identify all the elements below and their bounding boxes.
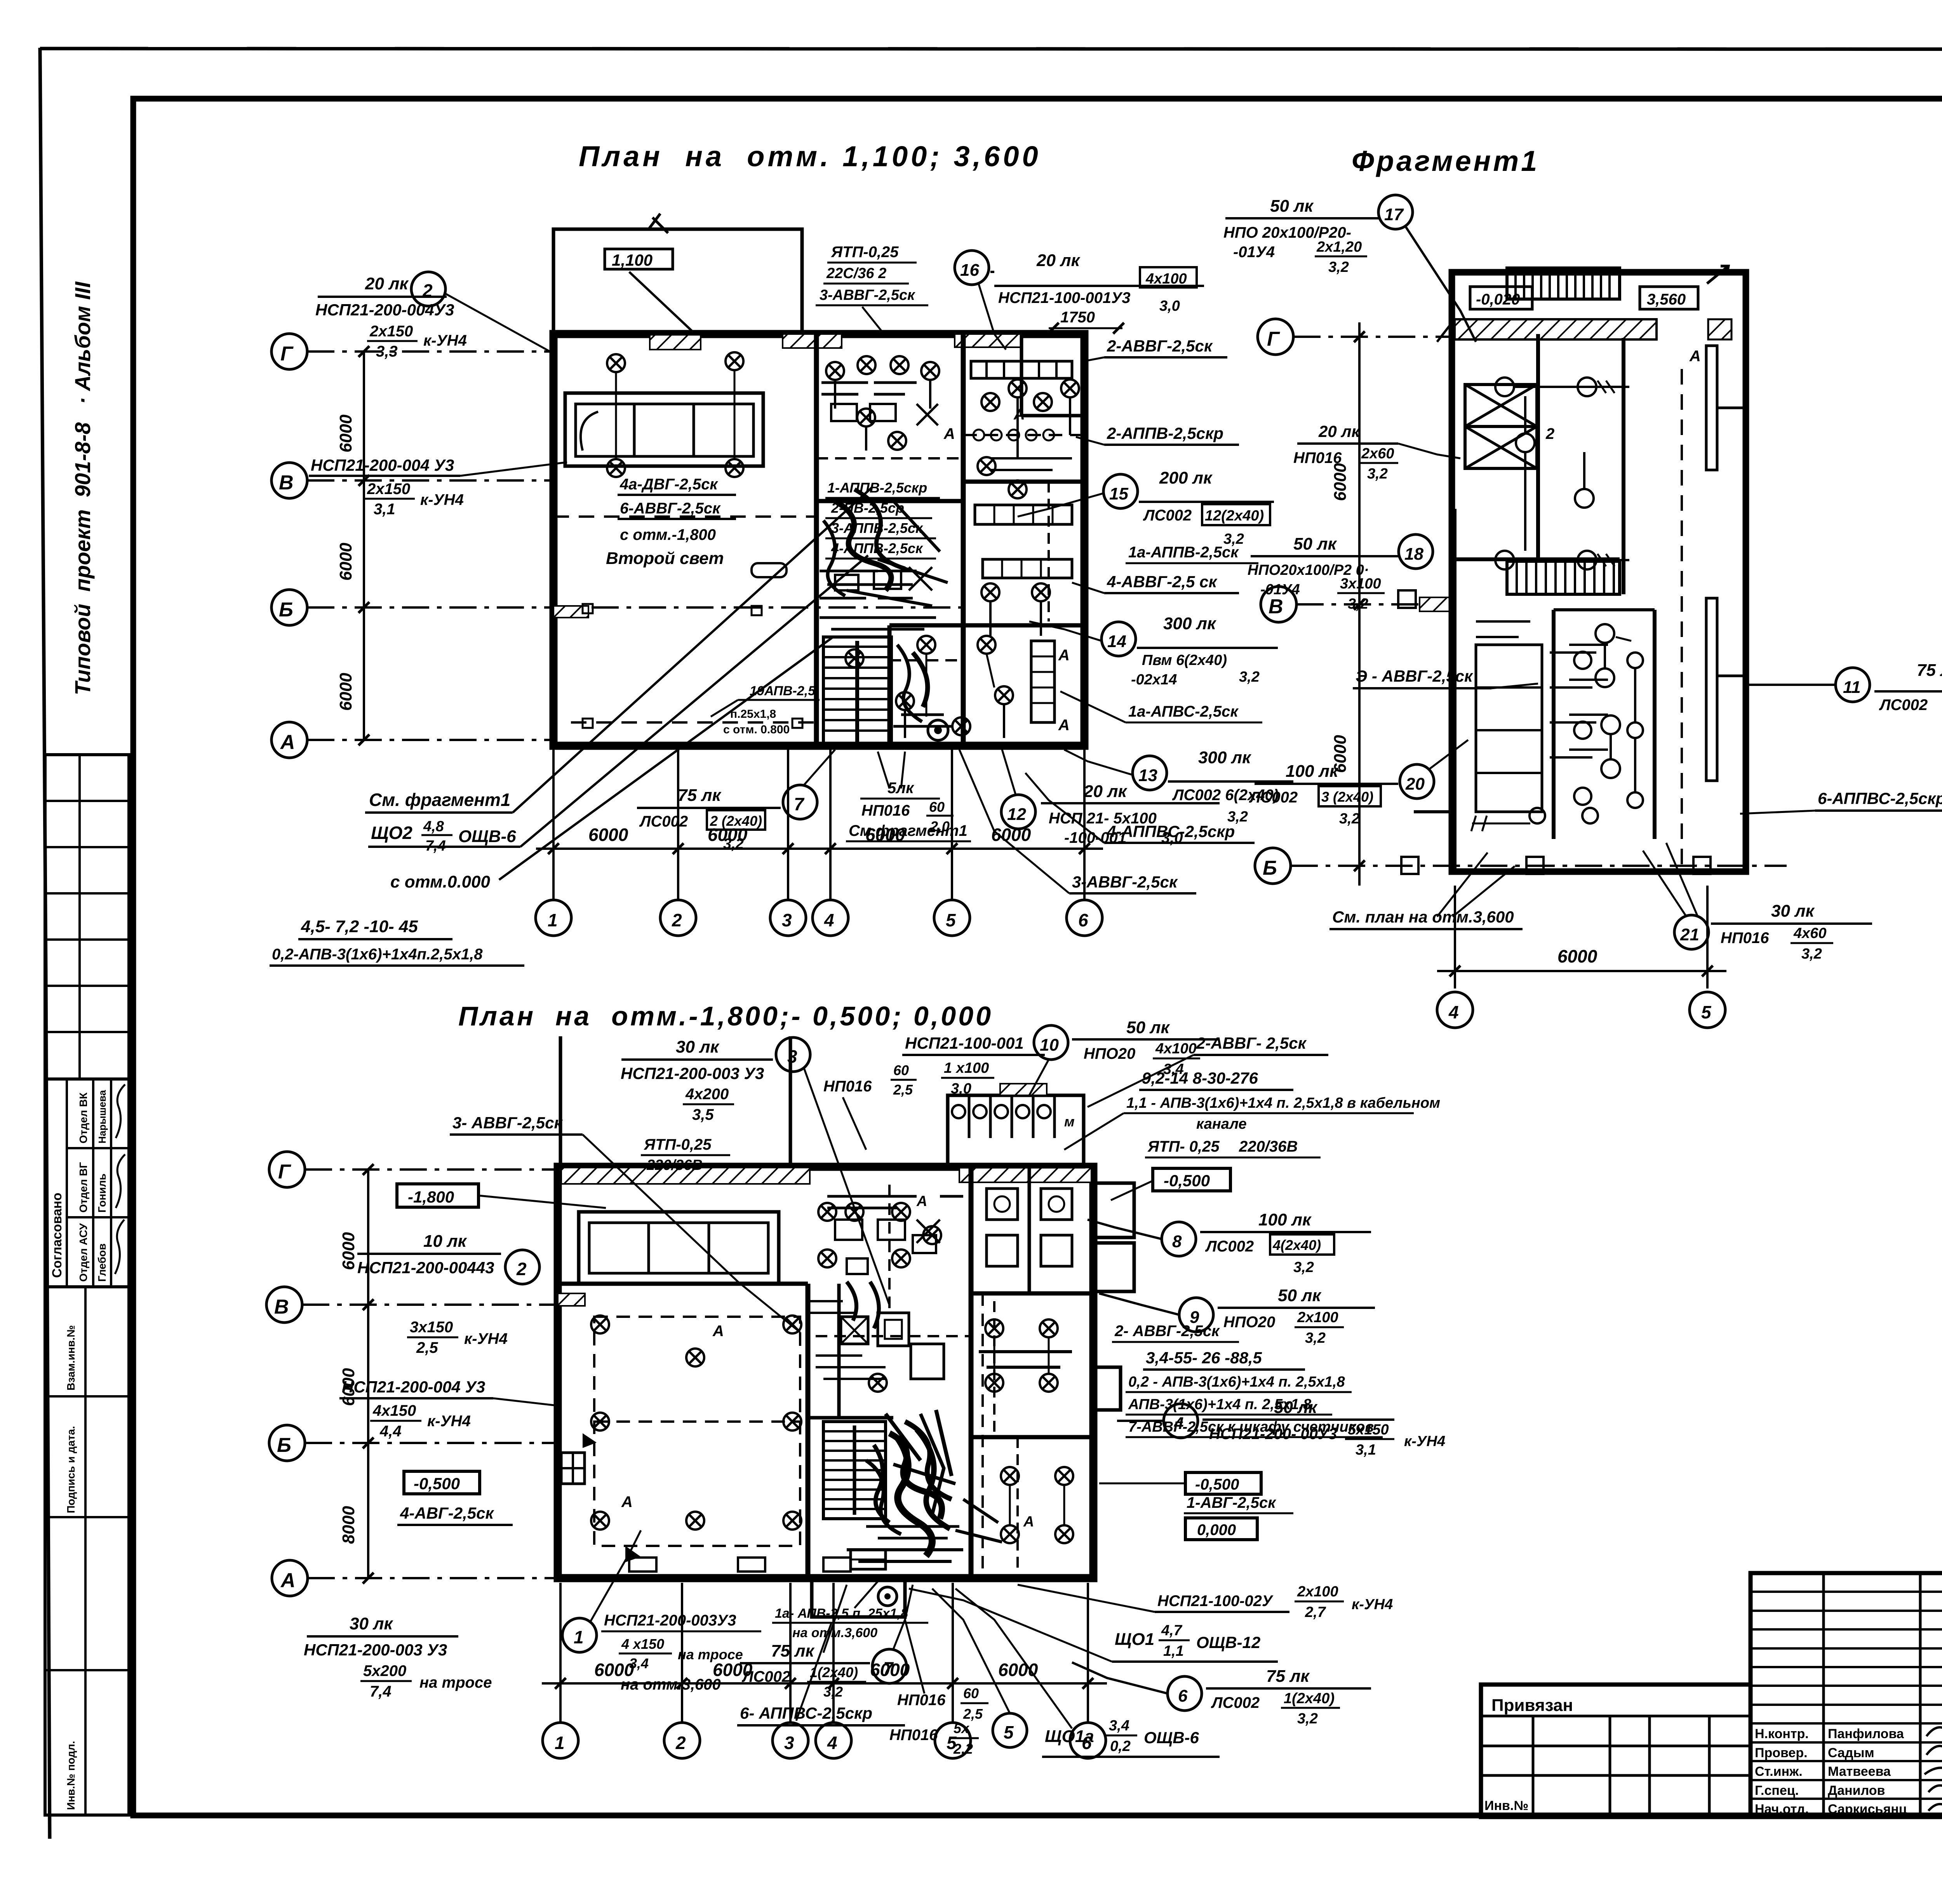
svg-text:-100-001: -100-001 <box>1064 829 1126 846</box>
svg-text:-0,020: -0,020 <box>1476 291 1520 308</box>
svg-text:1(2х40): 1(2х40) <box>1284 1690 1335 1707</box>
annotation 2-АВВГ-2,5ск right <box>1084 337 1227 361</box>
fragment annotation См. план на отм.3,600 <box>1329 853 1523 929</box>
svg-text:3,0: 3,0 <box>1161 829 1183 846</box>
svg-text:220/36В: 220/36В <box>646 1157 703 1173</box>
svg-text:НСП21-100-001У3: НСП21-100-001У3 <box>998 289 1131 306</box>
svg-text:НСП21-200-003 У3: НСП21-200-003 У3 <box>304 1641 447 1659</box>
svg-text:3,2: 3,2 <box>1348 596 1368 612</box>
svg-text:ЩО2: ЩО2 <box>371 823 412 843</box>
plan3 right jutting rooms <box>1093 1183 1134 1410</box>
plan3 circle 1 leader <box>562 1530 641 1652</box>
svg-text:4,4: 4,4 <box>379 1423 402 1440</box>
plan3 annotation 4-АВГ-2,5ск <box>397 1504 513 1525</box>
svg-text:0,2: 0,2 <box>1110 1738 1131 1754</box>
svg-text:4: 4 <box>1448 1002 1459 1022</box>
svg-text:6000: 6000 <box>865 825 905 845</box>
svg-text:2,2: 2,2 <box>953 1741 973 1757</box>
fragment annotation group 17 <box>1223 195 1476 342</box>
svg-text:9,2-14 8-30-276: 9,2-14 8-30-276 <box>1142 1069 1258 1087</box>
fragment grid axis Г <box>1258 319 1453 355</box>
fragment annotation group 20 <box>1249 740 1468 827</box>
svg-text:3,2: 3,2 <box>823 1684 843 1700</box>
svg-text:к-УН4: к-УН4 <box>464 1330 508 1347</box>
svg-text:2-АППВ-2,5скр: 2-АППВ-2,5скр <box>1107 424 1223 442</box>
svg-text:См. план на отм.3,600: См. план на отм.3,600 <box>1332 908 1514 926</box>
annotation group 2 (НСП21-200-004УЗ top left) <box>315 272 553 360</box>
fragment level box -0,020 <box>1470 287 1532 309</box>
svg-text:4х60: 4х60 <box>1793 925 1827 942</box>
svg-text:Отдел ВГ: Отдел ВГ <box>77 1162 89 1213</box>
svg-text:17: 17 <box>1384 205 1404 224</box>
svg-text:1-АППВ-2,5скр: 1-АППВ-2,5скр <box>827 480 927 496</box>
svg-text:3,2: 3,2 <box>1801 946 1822 962</box>
long leader wires to fragment area <box>499 487 872 880</box>
svg-text:21: 21 <box>1680 925 1699 944</box>
svg-text:6000: 6000 <box>336 543 355 581</box>
plan1 lab benches (room 13/14) <box>943 406 1072 734</box>
plan3 rooftop wc block <box>948 1084 1084 1167</box>
svg-text:4: 4 <box>827 1733 837 1753</box>
svg-text:Б: Б <box>277 1434 291 1457</box>
plan1 extra lamps top band <box>826 362 1079 601</box>
svg-text:4 х150: 4 х150 <box>621 1636 664 1652</box>
svg-text:Типовой проект 901-8-8 · А: Типовой проект 901-8-8 · Альбом III <box>70 281 95 695</box>
svg-text:на отм.3,600: на отм.3,600 <box>621 1676 721 1693</box>
fragment annotation 20 лк НП016 <box>1293 422 1460 482</box>
svg-text:А: А <box>943 425 955 442</box>
svg-text:к-УН4: к-УН4 <box>423 332 467 349</box>
svg-text:А: А <box>280 1569 296 1592</box>
annotation 4-АППВС-2,5скр <box>1025 773 1255 843</box>
plan title: План на отм. 1,100; 3,600 <box>579 140 1041 172</box>
svg-text:А: А <box>712 1323 724 1340</box>
plan1 lamps right rooms <box>846 356 1052 740</box>
fragment extra clutter <box>1476 621 1643 812</box>
svg-text:1а- АПВ-2,5 п. 25х1,8: 1а- АПВ-2,5 п. 25х1,8 <box>775 1606 908 1621</box>
svg-text:6: 6 <box>1078 910 1088 930</box>
svg-text:5х150: 5х150 <box>1348 1422 1389 1438</box>
annotation group 7 (75 лк) <box>637 750 835 852</box>
left stamp: revision table <box>45 755 129 1079</box>
plan3 window band top-left room <box>579 1212 779 1284</box>
plan1 column bubbles 1-6 <box>536 849 1102 936</box>
svg-text:12(2х40): 12(2х40) <box>1205 508 1264 524</box>
svg-text:Г: Г <box>280 343 294 365</box>
svg-text:3х100: 3х100 <box>1340 576 1381 592</box>
svg-text:3: 3 <box>784 1733 794 1753</box>
svg-text:2: 2 <box>422 280 433 301</box>
svg-text:-0,500: -0,500 <box>1164 1171 1210 1190</box>
svg-text:2-АВВГ-2,5ск: 2-АВВГ-2,5ск <box>1107 337 1213 355</box>
svg-text:Гониль: Гониль <box>96 1173 108 1213</box>
svg-text:4,7: 4,7 <box>1161 1622 1183 1639</box>
svg-text:Второй свет: Второй свет <box>606 549 724 568</box>
svg-text:100 лк: 100 лк <box>1258 1210 1312 1229</box>
svg-text:НСП21-200-004 У3: НСП21-200-004 У3 <box>342 1378 485 1396</box>
plan1 clerestory outline <box>553 214 802 334</box>
svg-text:6000: 6000 <box>339 1232 358 1270</box>
plan3 level box -1,800 <box>397 1184 606 1208</box>
fragment grid axis В <box>1261 587 1453 622</box>
vertical dimension chain plan 1 <box>336 346 369 745</box>
plan1 lamps left room <box>607 352 743 477</box>
svg-text:НП016: НП016 <box>823 1078 872 1095</box>
svg-text:Согласовано: Согласовано <box>50 1193 64 1278</box>
left stamp: approval table <box>45 1079 129 1287</box>
plan3 extra fixtures mid <box>808 1203 941 1392</box>
svg-text:14: 14 <box>1107 632 1126 651</box>
fragment top stair comb <box>1507 268 1620 299</box>
svg-text:НП016: НП016 <box>1721 929 1769 947</box>
fragment annotation 3-АВВГ-2,5ск <box>1353 667 1538 688</box>
svg-text:20 лк: 20 лк <box>365 274 409 293</box>
annotation group 12 (20 лк) <box>1001 750 1220 846</box>
fragment title <box>1352 145 1539 177</box>
plan3 mid dense machinery cluster <box>816 1185 971 1379</box>
svg-text:А: А <box>1013 406 1025 423</box>
svg-text:6000: 6000 <box>1557 946 1597 966</box>
svg-text:60: 60 <box>963 1685 979 1701</box>
svg-text:НП016: НП016 <box>861 802 910 819</box>
signature names <box>1755 1726 1907 1817</box>
plan3 level box -0,500 top right <box>1111 1168 1230 1200</box>
vertical album title <box>70 281 95 695</box>
svg-text:п.25х1,8: п.25х1,8 <box>730 708 776 721</box>
svg-text:3,2: 3,2 <box>1328 259 1349 275</box>
dimension 1750 <box>1048 309 1124 334</box>
svg-text:0,2-АПВ-3(1х6)+1х4п.2,5х1,8: 0,2-АПВ-3(1х6)+1х4п.2,5х1,8 <box>272 946 483 963</box>
plan3 annotation group 6 <box>1072 1662 1371 1727</box>
plan3 left room corner fixtures <box>561 1433 851 1572</box>
svg-text:Данилов: Данилов <box>1828 1783 1885 1798</box>
fragment column bubbles 4,5 <box>1437 992 1725 1028</box>
plan3 annotation feeder 3,4-55-26-88,5 <box>1126 1349 1383 1437</box>
annotation 2-АППВ-2,5скр right <box>1076 424 1239 445</box>
svg-text:75 лк: 75 лк <box>1266 1667 1310 1686</box>
title block: привязан box <box>1481 1685 1751 1817</box>
title block: signature grid <box>1751 1573 1942 1817</box>
plan3 top wall hatch bands <box>558 1168 1091 1306</box>
svg-text:с отм.-1,800: с отм.-1,800 <box>620 526 716 543</box>
svg-text:1750: 1750 <box>1060 309 1095 326</box>
svg-text:Г: Г <box>278 1161 291 1183</box>
svg-text:НСП21-200-003У3: НСП21-200-003У3 <box>604 1612 736 1629</box>
plan3 title <box>458 1001 993 1031</box>
svg-text:А: А <box>280 731 295 754</box>
grid axis Г (plan 1) <box>271 334 553 369</box>
svg-text:75 лк: 75 лк <box>1917 661 1942 680</box>
svg-text:на тросе: на тросе <box>419 1674 492 1691</box>
svg-text:3,4: 3,4 <box>1109 1718 1129 1734</box>
svg-text:В: В <box>274 1296 289 1318</box>
svg-text:1,1 - АПВ-3(1х6)+1х4 п. 2,5х1,: 1,1 - АПВ-3(1х6)+1х4 п. 2,5х1,8 в кабель… <box>1126 1095 1440 1111</box>
svg-text:20 лк: 20 лк <box>1318 422 1361 440</box>
plan1 building outer walls <box>553 334 1084 746</box>
svg-text:0,000: 0,000 <box>1197 1521 1236 1539</box>
plan3 lamps left room <box>591 1316 801 1530</box>
plan3 annotation 3х150 к-УН4 <box>407 1319 508 1356</box>
annotation 1а-АППВ-2,5ск <box>1126 544 1258 563</box>
svg-text:3,4-55- 26 -88,5: 3,4-55- 26 -88,5 <box>1146 1349 1262 1367</box>
svg-text:60: 60 <box>929 799 945 815</box>
svg-text:Г: Г <box>1267 328 1280 350</box>
annotation group 15 <box>1018 468 1274 547</box>
svg-text:НПО20: НПО20 <box>1223 1314 1275 1331</box>
plan3 annotation 3-АВВГ-2,5ск top <box>450 1114 800 1332</box>
svg-text:3,1: 3,1 <box>374 501 395 518</box>
plan3 annotation НСП21-200-003УЗ bottom <box>601 1612 761 1693</box>
svg-text:7: 7 <box>883 1658 894 1678</box>
plan3 grid axis А <box>272 1560 558 1596</box>
svg-text:2- АВВГ-2,5ск: 2- АВВГ-2,5ск <box>1114 1323 1220 1340</box>
annotation НСП21-200-004 УЗ (axis В) <box>309 456 567 518</box>
svg-text:План на отм. 1,100; 3,600: План на отм. 1,100; 3,600 <box>579 140 1041 172</box>
svg-text:Нач.отд.: Нач.отд. <box>1755 1802 1809 1817</box>
svg-text:3-АВВГ-2,5ск: 3-АВВГ-2,5ск <box>820 287 915 303</box>
svg-text:НПО20: НПО20 <box>1084 1045 1135 1062</box>
svg-text:6-АППВС-2,5скр: 6-АППВС-2,5скр <box>1818 789 1942 808</box>
svg-text:20: 20 <box>1405 774 1425 794</box>
svg-text:ЛС002: ЛС002 <box>1879 696 1928 714</box>
plan1 hatched wall segments <box>553 334 1022 618</box>
svg-text:6000: 6000 <box>1331 463 1350 501</box>
svg-text:2: 2 <box>1545 425 1554 442</box>
svg-text:3,1: 3,1 <box>1356 1442 1376 1458</box>
svg-text:Инв.№ подл.: Инв.№ подл. <box>65 1741 77 1810</box>
fragment pendant lamp circuits top room <box>1495 378 1629 569</box>
svg-text:НСП21-200-004У3: НСП21-200-004У3 <box>315 301 454 319</box>
svg-text:2-АВВГ- 2,5ск: 2-АВВГ- 2,5ск <box>1196 1034 1307 1052</box>
fragment В-axis partial walls <box>1398 509 1455 870</box>
svg-text:2,7: 2,7 <box>1305 1604 1326 1620</box>
svg-text:на отм.3,600: на отм.3,600 <box>792 1626 877 1640</box>
fragment grid axis Б <box>1255 848 1787 884</box>
svg-text:НСП21-100-001: НСП21-100-001 <box>905 1034 1024 1052</box>
annotation НП016 5лк <box>846 752 971 841</box>
svg-text:30 лк: 30 лк <box>676 1037 720 1056</box>
svg-text:3,2: 3,2 <box>1297 1711 1318 1727</box>
svg-text:4х200: 4х200 <box>685 1086 729 1103</box>
plan1 heavy circuit scribble cluster <box>820 489 948 629</box>
svg-text:4: 4 <box>1174 1414 1183 1433</box>
plan3 annotation ЯТП-0,25 <box>641 1136 730 1173</box>
plan3 section cut lines <box>560 1036 790 1167</box>
plan3 annotation НП016 lower + circle 5 <box>889 1589 1027 1757</box>
svg-text:Провер.: Провер. <box>1755 1746 1808 1760</box>
svg-text:-0,500: -0,500 <box>1195 1476 1239 1493</box>
svg-text:4х150: 4х150 <box>372 1402 416 1419</box>
svg-text:НП016: НП016 <box>897 1692 946 1709</box>
svg-text:12: 12 <box>1007 805 1026 824</box>
svg-text:Инв.№: Инв.№ <box>1484 1798 1528 1813</box>
svg-text:3,0: 3,0 <box>1159 298 1180 314</box>
svg-text:5: 5 <box>946 910 956 930</box>
svg-text:-01У4: -01У4 <box>1260 581 1300 598</box>
svg-text:2х100: 2х100 <box>1297 1309 1338 1326</box>
plan3 annotation НП016 60/2,5 bottom <box>897 1620 988 1722</box>
svg-text:4(2х40): 4(2х40) <box>1272 1237 1321 1253</box>
plan3 annotation НСП21-100-02У bottom right <box>1018 1584 1393 1620</box>
svg-text:3,560: 3,560 <box>1647 291 1686 308</box>
svg-text:-01У4: -01У4 <box>1233 244 1275 261</box>
plan1 extra interior clutter <box>821 342 1072 726</box>
svg-text:НСП21-100-02У: НСП21-100-02У <box>1157 1592 1274 1610</box>
fragment annotation group 21 <box>1643 843 1872 962</box>
svg-text:ЛС002: ЛС002 <box>1205 1238 1254 1255</box>
svg-text:6000: 6000 <box>708 825 748 845</box>
svg-text:Фрагмент1: Фрагмент1 <box>1352 145 1539 177</box>
grid axis А (plan 1) <box>271 722 553 758</box>
svg-text:к-УН4: к-УН4 <box>420 491 464 508</box>
svg-text:2х100: 2х100 <box>1297 1584 1338 1600</box>
annotation 4-АВВГ-2,5 ск <box>1072 573 1239 593</box>
svg-text:4-АВВГ-2,5 ск: 4-АВВГ-2,5 ск <box>1107 573 1218 591</box>
svg-text:3,5: 3,5 <box>692 1106 714 1123</box>
svg-text:Отдел ВК: Отдел ВК <box>77 1092 89 1143</box>
plan3 annotation ЩО1а ОЩВ-6 <box>955 1589 1220 1757</box>
svg-text:1а-АППВ-2,5ск: 1а-АППВ-2,5ск <box>1128 544 1239 561</box>
svg-text:ЛС002: ЛС002 <box>1249 789 1298 806</box>
plan3 annotation НСП21-100-001 top <box>902 1034 1045 1097</box>
fragment annotation group 11 <box>1748 661 1942 734</box>
plan3 annotation 10 лк группа 2 <box>357 1232 539 1284</box>
svg-text:-1,800: -1,800 <box>408 1188 454 1206</box>
svg-text:План на отм.-1,800;- 0,500;: План на отм.-1,800;- 0,500; 0,000 <box>458 1001 993 1031</box>
annotation group 16 top right <box>955 251 1204 350</box>
svg-text:4а-ДВГ-2,5ск: 4а-ДВГ-2,5ск <box>619 476 718 493</box>
svg-text:200 лк: 200 лк <box>1159 468 1213 487</box>
plan3 annotation group 9 <box>1099 1286 1375 1346</box>
svg-text:50 лк: 50 лк <box>1126 1018 1171 1037</box>
svg-text:2: 2 <box>675 1733 686 1753</box>
svg-text:4х100: 4х100 <box>1145 271 1187 287</box>
svg-text:5: 5 <box>1004 1722 1014 1742</box>
svg-text:6000: 6000 <box>991 825 1031 845</box>
svg-text:НСП21-200- 00У3: НСП21-200- 00У3 <box>1209 1425 1337 1443</box>
svg-text:20 лк: 20 лк <box>1083 782 1128 801</box>
plan3 left vertical dimension chain <box>339 1164 374 1584</box>
plan3 annotation group 4 <box>1117 1398 1445 1458</box>
plan3 annotation 6-АППВС leader lines <box>796 1585 847 1721</box>
svg-text:НП016: НП016 <box>1293 449 1342 466</box>
svg-text:50 лк: 50 лк <box>1270 197 1314 216</box>
svg-text:1,1: 1,1 <box>1163 1643 1184 1659</box>
svg-text:6- АППВС-2,5скр: 6- АППВС-2,5скр <box>740 1704 872 1722</box>
annotation ЯТП-0,25 top <box>816 244 928 336</box>
svg-text:2,5: 2,5 <box>963 1706 983 1722</box>
svg-text:6-АВВГ-2,5ск: 6-АВВГ-2,5ск <box>620 500 721 517</box>
svg-text:3,2: 3,2 <box>1305 1330 1326 1346</box>
annotation 3-АВВГ-2,5ск bottom right <box>959 750 1196 893</box>
svg-text:3,2: 3,2 <box>1293 1259 1314 1276</box>
svg-text:8: 8 <box>1172 1232 1182 1251</box>
svg-text:4: 4 <box>824 910 834 930</box>
svg-text:1(2х40): 1(2х40) <box>810 1664 858 1680</box>
svg-text:2,5: 2,5 <box>416 1339 438 1356</box>
svg-text:Г.спец.: Г.спец. <box>1755 1783 1799 1798</box>
svg-text:с отм. 0.800: с отм. 0.800 <box>723 723 790 736</box>
plan3 stair <box>823 1422 886 1519</box>
plan3 level box -0,500 right <box>1099 1472 1261 1494</box>
svg-text:Саркисьянц: Саркисьянц <box>1828 1802 1907 1817</box>
svg-text:4,8: 4,8 <box>423 818 444 835</box>
svg-text:3,4: 3,4 <box>629 1655 649 1671</box>
svg-text:60: 60 <box>893 1062 909 1078</box>
plan3 annotation group 7 (75 лк) <box>740 1585 913 1700</box>
svg-text:ОЩВ-12: ОЩВ-12 <box>1196 1633 1260 1652</box>
svg-text:Панфилова: Панфилова <box>1828 1726 1904 1741</box>
svg-text:3х150: 3х150 <box>410 1319 453 1336</box>
plan3 annotation feeder 9,2-14 8-30-276 <box>1064 1069 1440 1150</box>
plan3 extra heavy smudge <box>847 1410 1002 1561</box>
svg-text:3,2: 3,2 <box>1339 811 1360 827</box>
plan1 interior wall (mid vertical) <box>816 334 1084 746</box>
annotation с отм.0.000 <box>390 872 491 891</box>
svg-text:Отдел АСУ: Отдел АСУ <box>77 1223 89 1282</box>
svg-text:ЛС002: ЛС002 <box>1143 507 1192 524</box>
svg-text:10 лк: 10 лк <box>423 1232 468 1251</box>
svg-text:2х60: 2х60 <box>1361 446 1394 462</box>
annotation feeder 4,5-7,2-10-45 <box>270 917 524 966</box>
fragment vertical dimension line <box>1331 322 1365 886</box>
annotation group 14 <box>1029 614 1278 688</box>
svg-text:2: 2 <box>516 1259 527 1279</box>
fragment interior walls <box>1455 334 1655 839</box>
svg-text:11: 11 <box>1843 678 1861 697</box>
plan1 dashed circuit run left room <box>553 517 816 728</box>
svg-text:-0,500: -0,500 <box>414 1474 460 1493</box>
svg-text:1 х100: 1 х100 <box>944 1060 989 1076</box>
svg-text:1: 1 <box>548 910 558 930</box>
plan3 annotation 30 лк на тросе <box>304 1614 492 1700</box>
svg-text:В: В <box>279 472 294 494</box>
plan1 corridor equipment scribble cluster <box>752 563 932 615</box>
svg-text:ОЩВ-6: ОЩВ-6 <box>458 827 516 846</box>
svg-text:3: 3 <box>787 1046 797 1067</box>
svg-text:1: 1 <box>574 1627 584 1647</box>
plan3 column bubbles 1-6 <box>543 1683 1106 1758</box>
svg-text:-02х14: -02х14 <box>1131 672 1177 688</box>
svg-text:22С/36 2: 22С/36 2 <box>826 265 886 282</box>
fragment bottom dimension chain <box>1437 886 1726 989</box>
grid axis Б (plan 1) <box>271 590 963 625</box>
left stamp: inventory block <box>45 1287 129 1815</box>
svg-text:16: 16 <box>960 261 979 280</box>
svg-text:5х200: 5х200 <box>363 1662 406 1679</box>
plan3 bottom dimension chain <box>542 1583 1107 1701</box>
fragment wc pendant circuits <box>1471 624 1631 831</box>
svg-text:10: 10 <box>1040 1036 1059 1055</box>
svg-text:75 лк: 75 лк <box>771 1641 815 1660</box>
plan1 leader texts inside stair area <box>711 684 820 736</box>
fragment right service shafts <box>1682 346 1746 866</box>
svg-text:3,2: 3,2 <box>1239 669 1260 685</box>
plan3 right rooms fixtures <box>983 1189 1073 1577</box>
plan3 extra interior clutter <box>827 1196 1072 1573</box>
fragment crossed vent boxes <box>1465 385 1537 468</box>
plan3 level box -0,500 left <box>404 1471 480 1494</box>
svg-text:0,2 - АПВ-3(1х6)+1х4 п. 2,5х1,: 0,2 - АПВ-3(1х6)+1х4 п. 2,5х1,8 <box>1128 1374 1345 1390</box>
svg-text:Б: Б <box>279 599 293 621</box>
svg-text:Подпись и дата.: Подпись и дата. <box>65 1426 77 1513</box>
svg-text:ЛС002: ЛС002 <box>741 1668 790 1685</box>
plan1 dense annotation scribbles (cables list) <box>825 480 940 559</box>
plan3 annotation 1а-АПВ-2,5 п.25х1,8 <box>772 1577 928 1640</box>
plan3 interior walls <box>558 1167 1093 1578</box>
svg-text:6000: 6000 <box>336 414 355 453</box>
svg-text:20 лк: 20 лк <box>1036 251 1081 270</box>
